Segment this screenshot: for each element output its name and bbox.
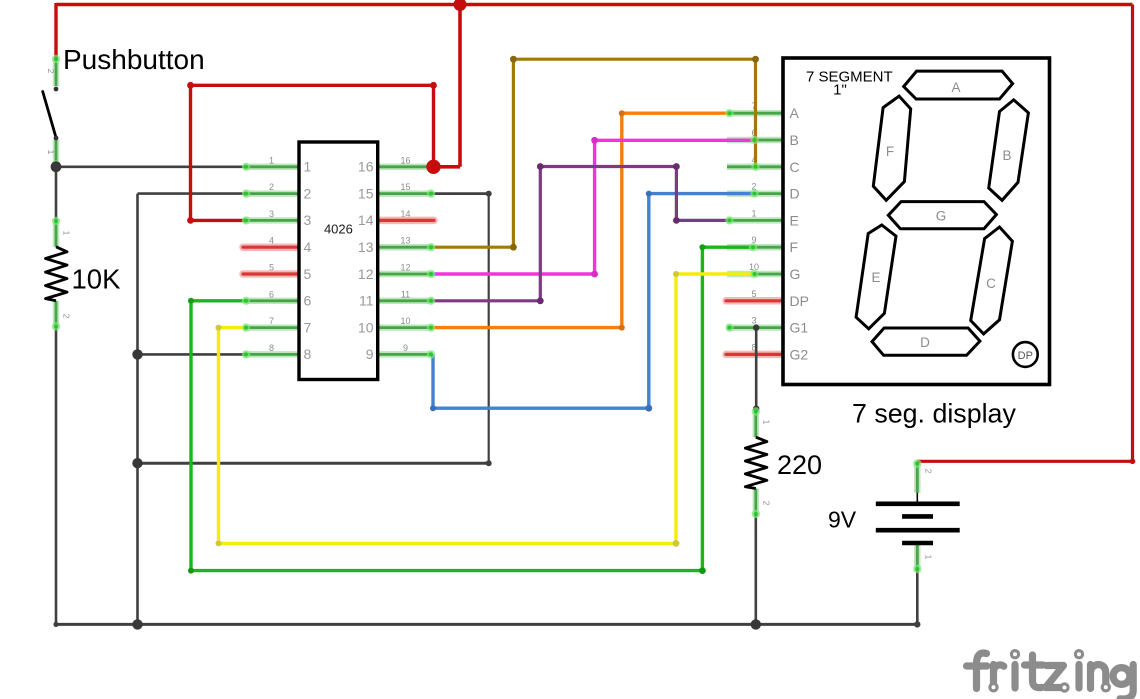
junction dot ground bus x=756: [751, 619, 761, 629]
svg-text:7 seg. display: 7 seg. display: [852, 399, 1016, 429]
svg-text:8: 8: [304, 346, 312, 362]
battery BT1 pin 2 stub: [914, 461, 921, 493]
resistor R2 pin 1 stub: [753, 410, 760, 438]
bus end dot left: [53, 622, 58, 627]
svg-text:G: G: [936, 209, 947, 224]
wire display G1 to 220: [755, 328, 758, 409]
IC U1 inside pin numbers: [304, 159, 374, 363]
orange wire IC pin10 to display A: [433, 113, 729, 327]
segment D: [872, 328, 980, 355]
display pin B stub: [727, 137, 783, 144]
segment G: [888, 202, 996, 229]
pushbutton S1 top contact: [54, 87, 59, 92]
svg-text:A: A: [951, 80, 960, 95]
display pin letters: [790, 105, 809, 362]
svg-text:7 SEGMENT: 7 SEGMENT: [806, 69, 893, 86]
svg-text:G: G: [790, 266, 801, 282]
svg-text:C: C: [986, 276, 996, 291]
svg-text:E: E: [790, 212, 799, 228]
wire vertical net x=137.5: [136, 194, 139, 625]
svg-text:14: 14: [358, 212, 374, 228]
pin number labels: [269, 101, 759, 353]
red wire vertical to pin16 node: [458, 5, 462, 167]
red junction dot pin16: [426, 160, 440, 174]
wire junction to 10K pin 1: [55, 165, 58, 220]
segment A: [904, 71, 1013, 99]
IC U1 pin 5 (unconnected): [243, 270, 298, 278]
battery BT1 plate short 2: [902, 541, 933, 546]
svg-text:11: 11: [359, 293, 374, 309]
resistor R2 220 zigzag: [745, 437, 767, 488]
green bend dots: [188, 298, 194, 304]
IC U1 pin 13 stub: [378, 244, 433, 251]
svg-text:E: E: [871, 270, 880, 285]
red bend dot c: [187, 217, 194, 224]
display pin G1 stub: [727, 324, 783, 331]
display pin DP (unconnected): [726, 297, 782, 305]
IC U1 pin 12 stub: [378, 271, 433, 278]
wire IC pin 2 left: [138, 192, 246, 195]
svg-text:15: 15: [358, 185, 374, 201]
svg-text:12: 12: [358, 266, 374, 282]
svg-text:9V: 9V: [828, 507, 857, 533]
IC U1 pin 9 stub: [378, 351, 433, 358]
svg-text:DP: DP: [1018, 350, 1033, 362]
IC U1 pin 2 stub: [244, 190, 299, 197]
wire pin15 net vertical x=488.7: [488, 194, 490, 464]
svg-text:2: 2: [304, 185, 312, 201]
svg-text:D: D: [790, 186, 800, 202]
IC U1 pin 6 stub: [244, 298, 299, 305]
svg-text:D: D: [920, 335, 930, 350]
ground bus: [56, 623, 917, 626]
IC U1 pin 3 stub: [244, 217, 299, 224]
display pin F stub: [727, 244, 783, 251]
wire IC pin 8 left: [138, 353, 246, 356]
svg-text:1: 1: [62, 231, 72, 236]
junction dot pin2/pin8 net: [132, 349, 142, 359]
svg-text:F: F: [886, 144, 894, 159]
yellow bend dots: [216, 325, 222, 331]
red junction dot top bus: [454, 0, 467, 11]
fritzing watermark: [967, 653, 1134, 699]
pushbutton S1 pin 2 stub: [53, 58, 60, 87]
decimal point DP circle: [1013, 342, 1038, 367]
svg-text:2: 2: [924, 469, 934, 474]
resistor R1 pin 1 stub: [53, 219, 60, 247]
svg-text:2: 2: [762, 501, 772, 506]
brown wire IC pin13 to display C: [433, 59, 756, 247]
blue wire IC pin9 to display D: [433, 194, 755, 409]
svg-text:B: B: [790, 132, 799, 148]
pushbutton S1 pin 1 stub: [53, 140, 60, 167]
IC U1 pin 15 stub: [378, 190, 433, 197]
red bend dot b: [187, 82, 194, 89]
wire IC pin 15 right: [432, 192, 489, 195]
red wire right edge: [1131, 5, 1134, 462]
svg-text:2: 2: [62, 314, 72, 319]
display pin A stub: [727, 110, 783, 117]
svg-text:1: 1: [46, 150, 56, 155]
svg-text:1: 1: [304, 159, 312, 175]
yellow wire IC pin7 to display G: [219, 274, 755, 543]
red wire over IC: [191, 84, 434, 87]
battery BT1 plate long bottom: [876, 528, 960, 533]
purple wire IC pin11 to display E: [433, 167, 728, 301]
IC U1 pin 4 (unconnected): [243, 243, 298, 251]
svg-text:A: A: [790, 105, 800, 121]
IC U1 pin 8 stub: [244, 351, 299, 358]
battery BT1 top lead: [916, 493, 918, 504]
display pin G stub: [727, 271, 783, 278]
bend dot pin15 net corner: [486, 460, 492, 466]
IC U1 pin 7 stub: [244, 324, 299, 331]
svg-text:DP: DP: [790, 293, 809, 309]
segment E: [856, 225, 896, 329]
bend dot G1 wire bottom: [753, 405, 759, 411]
svg-text:220: 220: [777, 450, 822, 480]
svg-text:1: 1: [924, 555, 934, 560]
battery BT1 plate long top: [876, 501, 960, 506]
segment B: [989, 100, 1029, 200]
pushbutton S1 lever: [43, 92, 56, 138]
svg-text:3: 3: [751, 316, 756, 326]
green wire IC pin6 to display F: [191, 247, 753, 570]
display pin C stub: [727, 164, 783, 171]
7-segment display box: [783, 58, 1050, 385]
svg-text:7: 7: [304, 319, 312, 335]
svg-text:4026: 4026: [324, 222, 353, 237]
battery BT1 plate short 1: [902, 514, 933, 519]
bend dot G1 wire top: [753, 324, 759, 330]
red wire into pin3: [191, 219, 247, 222]
display pin G2 (unconnected): [726, 351, 782, 359]
segment C: [971, 227, 1013, 334]
wire pin15 net horizontal y=463: [138, 462, 489, 465]
IC U1 pin 11 stub: [378, 298, 433, 305]
brown bend dots: [510, 244, 517, 251]
bend dot pin15 net top: [486, 191, 492, 197]
red bend dot a: [430, 82, 437, 89]
junction dot pin15 net: [132, 458, 142, 468]
segment F: [873, 96, 910, 200]
svg-text:3: 3: [304, 212, 312, 228]
orange bend dots: [619, 325, 625, 331]
svg-text:4: 4: [304, 239, 312, 255]
wire 10K pin 2 to ground bus: [55, 328, 58, 626]
wire 220 pin 2 to bus: [754, 516, 757, 625]
svg-text:B: B: [1002, 148, 1011, 163]
svg-text:10K: 10K: [72, 264, 122, 295]
red wire pin16 up: [432, 85, 435, 167]
IC U1 pin 16 stub: [378, 164, 433, 171]
svg-text:16: 16: [358, 159, 374, 175]
IC U1 pin 10 stub: [378, 324, 433, 331]
red top bus: [56, 3, 1133, 7]
svg-text:C: C: [790, 159, 800, 175]
display pin E stub: [727, 217, 783, 224]
svg-text:F: F: [790, 239, 799, 255]
svg-text:2: 2: [46, 69, 56, 74]
svg-text:13: 13: [358, 239, 374, 255]
purple bend dots: [537, 297, 544, 304]
red wire to battery plus: [917, 460, 1132, 463]
red bend dot battery corner: [1130, 459, 1136, 465]
resistor R2 pin 2 stub: [753, 489, 760, 517]
svg-text:10: 10: [358, 319, 374, 335]
red wire down to pin3: [189, 85, 192, 220]
svg-text:1: 1: [751, 208, 756, 218]
pushbutton S1 bottom contact: [54, 136, 59, 141]
IC U1 4026 body: [299, 142, 378, 380]
magenta bend dots: [591, 271, 598, 278]
red wire top to pushbutton: [54, 3, 57, 58]
terminal glows: [52, 55, 922, 573]
blue bend dots: [430, 405, 436, 411]
junction dot ground bus x=137.5: [132, 619, 142, 629]
svg-text:9: 9: [366, 346, 374, 362]
display pin D stub: [727, 190, 783, 197]
svg-text:5: 5: [304, 266, 312, 282]
svg-text:Pushbutton: Pushbutton: [63, 44, 205, 75]
magenta wire IC pin12 to display B: [433, 140, 755, 274]
junction dot switch/10K/pin1: [51, 161, 62, 172]
svg-text:G1: G1: [790, 320, 809, 336]
wire switch to IC pin 1: [56, 166, 245, 169]
resistor R1 10K zigzag: [46, 247, 68, 301]
wire battery minus to bus: [916, 570, 919, 624]
bus end dot right: [914, 621, 920, 627]
IC U1 pin 14 (unconnected): [379, 217, 434, 225]
red wire jog to pin16: [434, 165, 461, 169]
svg-text:1: 1: [762, 420, 772, 425]
svg-text:G2: G2: [790, 346, 809, 362]
IC U1 pin 1 stub: [244, 164, 299, 171]
svg-text:6: 6: [304, 293, 312, 309]
svg-text:1": 1": [833, 82, 847, 99]
battery BT1 pin 1 stub: [914, 543, 921, 571]
resistor R1 pin 2 stub: [53, 301, 60, 329]
